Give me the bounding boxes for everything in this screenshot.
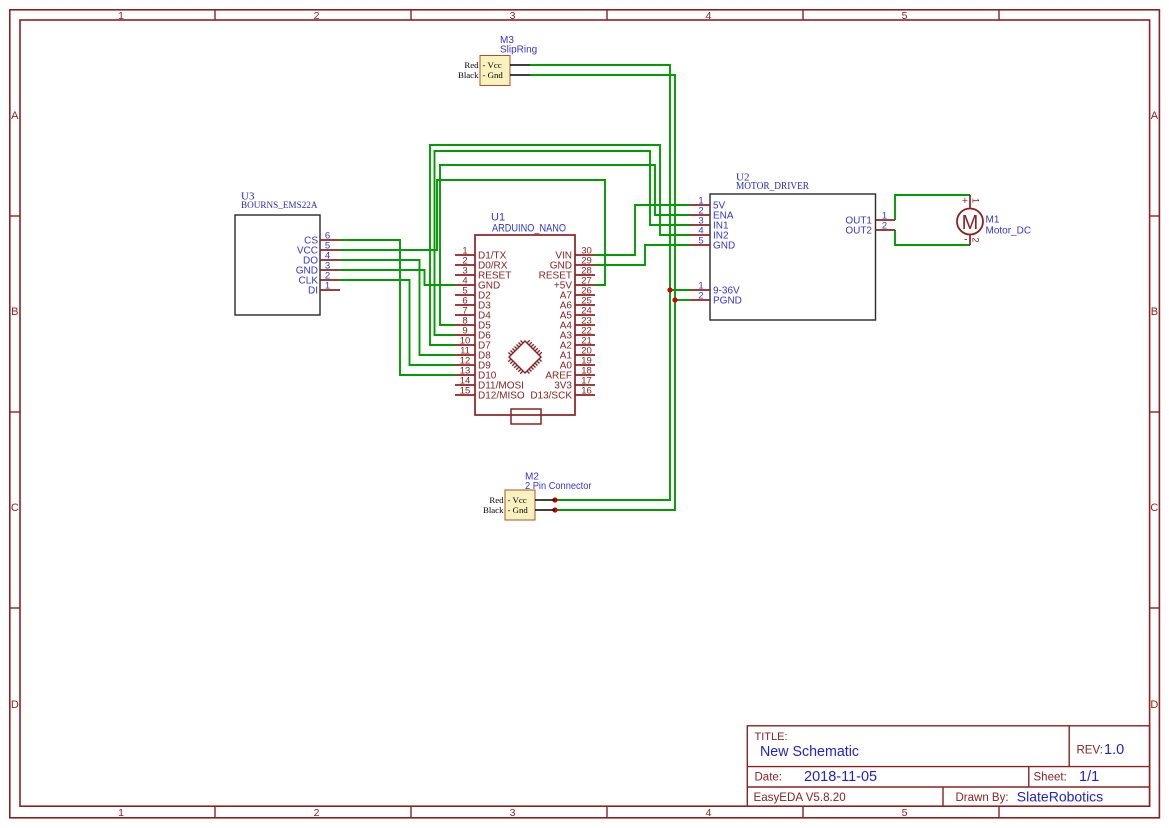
- junction dot Gnd at U2: [672, 297, 677, 302]
- U1 pin 12 D9: [455, 356, 491, 372]
- svg-text:Sheet:: Sheet:: [1034, 772, 1067, 784]
- U1 pin 30 VIN: [555, 246, 595, 262]
- M2 pin 1 Vcc: [489, 495, 555, 505]
- U1 pin 29 GND: [550, 256, 595, 272]
- svg-text:TITLE:: TITLE:: [755, 731, 788, 743]
- svg-text:2: 2: [882, 221, 887, 232]
- svg-text:2: 2: [698, 291, 703, 302]
- title block text Date 2018-11-05: [755, 769, 878, 785]
- U1 pin 10 D7: [455, 336, 491, 352]
- U1 pin 19 A0: [560, 356, 595, 372]
- wire net ENA to D5: [440, 165, 690, 325]
- title block text Sheet 1/1: [1034, 769, 1100, 785]
- svg-text:5: 5: [698, 236, 703, 247]
- U1 pin 9 D6: [455, 326, 491, 342]
- svg-text:A: A: [11, 110, 19, 122]
- svg-text:2018-11-05: 2018-11-05: [804, 769, 877, 785]
- svg-text:PGND: PGND: [713, 296, 742, 307]
- U1 pin 22 A3: [560, 326, 595, 342]
- svg-text:1: 1: [325, 281, 330, 292]
- wire net Vcc branch to 9-36V: [670, 289, 690, 291]
- U1 pin 26 A7: [560, 286, 595, 302]
- component M3 SlipRing: [480, 35, 537, 86]
- svg-text:C: C: [11, 502, 19, 514]
- svg-text:C: C: [1150, 502, 1158, 514]
- U1 usb connector rect: [511, 409, 541, 424]
- wire net CLK to D9: [340, 280, 455, 365]
- U2 pin 5 GND: [690, 236, 735, 252]
- U1 pin 14 D11/MOSI: [455, 376, 524, 392]
- wire net DO to D8: [340, 260, 455, 355]
- U2 pin 4 IN2: [690, 226, 729, 242]
- U1 pin 25 A6: [560, 296, 595, 312]
- svg-text:1/1: 1/1: [1079, 769, 1099, 785]
- svg-text:GND: GND: [713, 241, 735, 252]
- svg-text:2: 2: [314, 807, 320, 819]
- wire net Gnd M3 to M2: [530, 75, 675, 510]
- U2 pin 3 IN1: [690, 216, 729, 232]
- svg-text:BOURNS_EMS22A: BOURNS_EMS22A: [241, 200, 318, 211]
- U2 pin 1 5V: [690, 196, 726, 212]
- title block text TITLE New Schematic: [755, 731, 860, 760]
- svg-text:EasyEDA V5.8.20: EasyEDA V5.8.20: [754, 791, 846, 804]
- U1 pin 2 D0/RX: [455, 256, 508, 272]
- svg-text:5: 5: [902, 807, 908, 819]
- svg-text:Red: Red: [464, 60, 479, 70]
- svg-text:+: +: [962, 195, 968, 207]
- svg-text:B: B: [11, 306, 18, 318]
- svg-text:Motor_DC: Motor_DC: [986, 226, 1032, 237]
- U1 pin 21 A2: [560, 336, 595, 352]
- wire net CS to D10: [340, 240, 455, 375]
- svg-text:ARDUINO_NANO: ARDUINO_NANO: [492, 223, 566, 235]
- M2 pin 2 Gnd: [483, 505, 555, 515]
- U1 pin 11 D8: [455, 346, 491, 362]
- svg-text:OUT2: OUT2: [845, 226, 872, 237]
- M1 pin 1 plus: [962, 195, 980, 209]
- title block text Drawn By SlateRobotics: [956, 789, 1104, 805]
- wire net IN2 to D7: [430, 145, 690, 345]
- U1 pin 4 GND: [455, 276, 500, 292]
- wire net IN1 to D6: [435, 151, 691, 335]
- svg-text:1: 1: [118, 10, 124, 22]
- title block text REV 1.0: [1077, 742, 1125, 758]
- U1 pin 23 A4: [560, 316, 595, 332]
- svg-text:4: 4: [706, 10, 712, 22]
- svg-text:4: 4: [706, 807, 712, 819]
- U2 pin 2 PGND: [690, 291, 742, 307]
- svg-text:-: -: [964, 234, 968, 246]
- svg-text:D: D: [1150, 699, 1158, 711]
- wire net VIN to 5V: [595, 205, 690, 255]
- wire net GND29 to U2 GND: [595, 245, 690, 265]
- svg-text:- Gnd: - Gnd: [483, 70, 504, 80]
- U1 pin 5 D2: [455, 286, 491, 302]
- wire net U3 GND to Arduino GND: [340, 270, 455, 285]
- U2 pin 2 ENA: [690, 206, 734, 222]
- svg-text:Red: Red: [489, 495, 504, 505]
- svg-text:3: 3: [510, 807, 516, 819]
- svg-text:M: M: [962, 212, 979, 234]
- svg-text:- Vcc: - Vcc: [508, 495, 527, 505]
- svg-text:Black: Black: [483, 505, 504, 515]
- U1 pin 17 3V3: [554, 376, 595, 392]
- junction dot Vcc at M2: [552, 497, 557, 502]
- svg-text:SlipRing: SlipRing: [500, 45, 537, 56]
- U3 pin 2 CLK: [299, 271, 340, 287]
- U2 pin 1 9-36V: [690, 281, 740, 297]
- svg-text:Date:: Date:: [755, 772, 783, 784]
- component M1 Motor_DC: [957, 209, 1031, 237]
- wire net Vcc M3 to M2: [530, 65, 670, 500]
- junction dot Gnd at M2: [552, 507, 557, 512]
- U1 pin 20 A1: [560, 346, 595, 362]
- U1 pin 13 D10: [455, 366, 497, 382]
- svg-text:New Schematic: New Schematic: [760, 743, 859, 760]
- U2 pin 2 OUT2: [845, 221, 895, 237]
- svg-text:2: 2: [969, 237, 980, 242]
- wire net OUT1 to motor plus: [895, 195, 970, 220]
- svg-text:A: A: [1151, 110, 1159, 122]
- U1 mcu chip glyph: [508, 340, 542, 374]
- svg-text:MOTOR_DRIVER: MOTOR_DRIVER: [736, 181, 809, 192]
- svg-text:1: 1: [969, 198, 980, 203]
- svg-text:5: 5: [902, 10, 908, 22]
- component U2 MOTOR_DRIVER: [710, 172, 876, 321]
- svg-text:B: B: [1151, 306, 1158, 318]
- svg-text:3: 3: [510, 10, 516, 22]
- wire net VCC to +5V: [340, 180, 605, 285]
- U1 pin 7 D4: [455, 306, 491, 322]
- svg-text:DI: DI: [308, 286, 318, 297]
- U1 pin 16 D13/SCK: [530, 386, 595, 402]
- M3 pin 2 Gnd: [458, 70, 530, 80]
- svg-text:1: 1: [118, 807, 124, 819]
- U1 pin 1 D1/TX: [455, 246, 507, 262]
- svg-text:Black: Black: [458, 70, 479, 80]
- component U3 BOURNS_EMS22A: [235, 191, 320, 316]
- svg-text:M1: M1: [986, 215, 1000, 226]
- U1 pin 6 D3: [455, 296, 491, 312]
- svg-text:16: 16: [581, 386, 592, 397]
- title block frame: [747, 726, 1149, 806]
- component M2 2 Pin Connector: [505, 472, 592, 521]
- U1 pin 3 RESET: [455, 266, 511, 282]
- component U1 ARDUINO_NANO: [475, 212, 575, 416]
- svg-text:D13/SCK: D13/SCK: [530, 391, 572, 402]
- M3 pin 1 Vcc: [464, 60, 530, 70]
- title block text EasyEDA V5.8.20: [754, 791, 846, 804]
- svg-text:2: 2: [314, 10, 320, 22]
- U3 pin 1 DI: [308, 281, 340, 297]
- U1 pin 27 +5V: [554, 276, 595, 292]
- U1 pin 18 AREF: [545, 366, 595, 382]
- svg-text:SlateRobotics: SlateRobotics: [1017, 789, 1103, 805]
- svg-text:15: 15: [460, 386, 471, 397]
- svg-text:D12/MISO: D12/MISO: [478, 391, 525, 402]
- U3 pin 6 CS: [304, 231, 340, 247]
- U1 pin 8 D5: [455, 316, 491, 332]
- wire net OUT2 to motor minus: [895, 230, 970, 245]
- svg-text:1.0: 1.0: [1104, 742, 1124, 758]
- U3 pin 4 DO: [303, 251, 340, 267]
- U1 pin 24 A5: [560, 306, 595, 322]
- M1 pin 2 minus: [964, 234, 980, 246]
- svg-text:Drawn By:: Drawn By:: [956, 792, 1009, 804]
- svg-text:- Vcc: - Vcc: [483, 60, 502, 70]
- wire net Gnd branch to PGND: [675, 299, 690, 301]
- U3 pin 5 VCC: [297, 241, 340, 257]
- svg-text:D: D: [11, 699, 19, 711]
- junction dot Vcc at U2: [667, 287, 672, 292]
- svg-text:2 Pin Connector: 2 Pin Connector: [525, 481, 592, 492]
- svg-text:- Gnd: - Gnd: [508, 505, 529, 515]
- U1 pin 28 RESET: [539, 266, 595, 282]
- U3 pin 3 GND: [296, 261, 340, 277]
- U1 pin 15 D12/MISO: [455, 386, 525, 402]
- svg-text:REV:: REV:: [1077, 745, 1103, 757]
- U2 pin 1 OUT1: [845, 211, 895, 227]
